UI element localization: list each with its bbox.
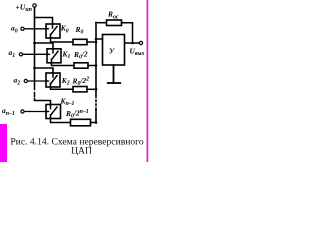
switch K1: [47, 49, 61, 63]
switch Kn-1: [46, 105, 61, 119]
node: junction R0/2^n-1 / summing bus: [95, 121, 98, 124]
switch K0: [46, 24, 60, 38]
wire: summing bus to op-amp input: [96, 38, 102, 40]
wire: bus branch to switch K1: [35, 43, 54, 49]
wire: op-amp output: [125, 42, 140, 44]
svg-text:R0/2n–1: R0/2n–1: [65, 109, 89, 120]
svg-text:K0: K0: [60, 24, 69, 35]
svg-text:K1: K1: [62, 50, 71, 61]
wire: summing bus lower section: [95, 110, 97, 123]
wire: K1 output to R0/2: [52, 63, 74, 66]
wire: op-amp ground lead: [113, 65, 115, 83]
power terminal +Uип: [33, 4, 36, 7]
svg-text:ЦАП: ЦАП: [71, 145, 92, 156]
svg-text:a1: a1: [9, 48, 16, 59]
resistor R0/2^2: [73, 87, 87, 92]
wire: R0/2 to summing bus: [88, 65, 96, 67]
wire: R0/2^n-1 to summing bus: [91, 122, 97, 124]
input terminal a1: [19, 53, 22, 56]
resistor R0/2: [74, 63, 88, 68]
node: op-amp input junction: [95, 38, 98, 41]
input terminal an-1: [21, 110, 24, 113]
svg-text:an–1: an–1: [2, 106, 15, 117]
wire: a2 control line: [28, 80, 46, 82]
output terminal Uвых: [139, 41, 142, 44]
svg-text:+Uип: +Uип: [16, 3, 32, 14]
svg-text:K2: K2: [61, 76, 70, 87]
op-amp U1 box: [103, 35, 125, 66]
wire: R0 to summing bus: [87, 41, 96, 43]
wire: K2 output to R0/2^2: [51, 87, 73, 89]
node: junction R0/2^2 / summing bus: [95, 88, 98, 91]
wire: summing bus dotted section: [95, 96, 97, 110]
resistor R0/2^n-1: [71, 119, 91, 126]
wire: bus branch to switch K2: [35, 68, 54, 73]
svg-text:a0: a0: [11, 24, 18, 35]
wire: Rос to output node: [122, 23, 133, 43]
svg-text:R0: R0: [75, 25, 84, 36]
node: bus junction row a1: [33, 42, 36, 45]
svg-text:a2: a2: [14, 76, 21, 87]
svg-text:Uвых: Uвых: [130, 46, 145, 57]
wire: Kn-1 output to R0/2^n-1: [51, 119, 71, 123]
input terminal a0: [21, 27, 24, 30]
svg-text:R0/22: R0/22: [72, 76, 90, 87]
wire: an-1 control line: [24, 111, 45, 113]
svg-text:Kn–1: Kn–1: [60, 97, 75, 108]
node: feedback / output junction: [131, 42, 134, 45]
input terminal a2: [24, 79, 27, 82]
node: junction R0/2 / summing bus: [95, 64, 98, 67]
switch K2: [46, 73, 60, 87]
wire: a1 control line: [23, 53, 47, 55]
wire: +Uип bus dashed section: [34, 86, 36, 99]
svg-text:У: У: [109, 47, 115, 56]
svg-text:Rос: Rос: [107, 10, 119, 21]
wire: R0/2^2 to summing bus: [87, 88, 96, 90]
wire: a0 control line: [24, 28, 45, 30]
node: bus junction row a2: [33, 67, 36, 70]
wire: +Uип bus vertical: [34, 7, 36, 85]
svg-text:R0/2: R0/2: [73, 50, 88, 61]
wire: bus branch to switch K0: [35, 18, 53, 25]
ground bar: [108, 82, 120, 84]
node: junction R0 / summing bus: [95, 41, 98, 44]
resistor R0: [73, 39, 87, 44]
wire: K0 output to R0: [51, 38, 73, 42]
wire: bus branch to switch Kn-1: [35, 99, 51, 105]
wire: summing bus to Rос: [96, 22, 106, 24]
resistor Rос: [107, 20, 122, 26]
wire: summing bus vertical: [95, 23, 97, 96]
